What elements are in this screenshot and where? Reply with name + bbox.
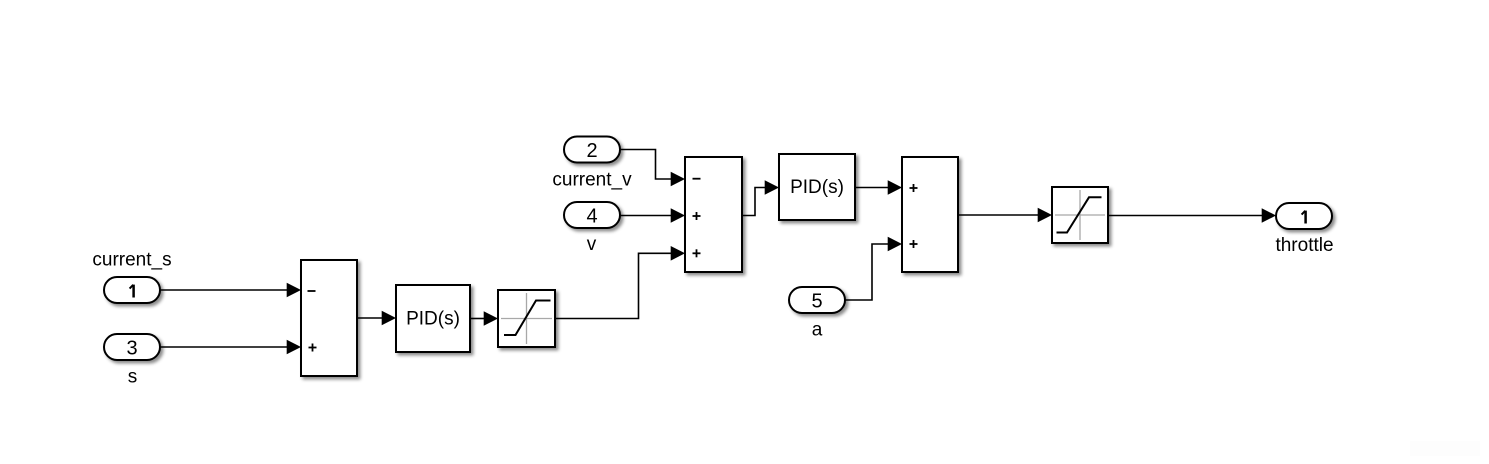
svg-text:PID(s): PID(s) <box>406 309 460 330</box>
sum block Sum2 <box>685 157 742 272</box>
outport 1 (throttle) <box>1276 203 1332 229</box>
svg-text:throttle: throttle <box>1275 235 1333 256</box>
wire sum3 to saturation2 <box>958 208 1052 223</box>
svg-text:s: s <box>128 367 138 388</box>
wire sum1 to PID1 <box>357 311 396 326</box>
wire port3 to sum1 plus input <box>160 340 301 355</box>
wire PID1 to saturation1 <box>470 311 498 326</box>
wire port4 to sum2 middle plus input <box>620 208 685 223</box>
inport 1 (current_s) <box>104 277 160 303</box>
inport 4 (v) <box>564 202 620 228</box>
wire sat1 to sum2 lower plus input <box>555 246 685 319</box>
svg-text:2: 2 <box>586 140 597 162</box>
saturation block Sat2 <box>1052 187 1108 243</box>
svg-text:a: a <box>812 320 823 341</box>
wire port1 to sum1 minus input <box>160 283 301 298</box>
svg-text:5: 5 <box>811 291 822 313</box>
sum block Sum1 <box>301 260 357 376</box>
watermark remnant <box>1410 441 1480 456</box>
svg-text:current_s: current_s <box>92 250 171 271</box>
wire sum2 to PID2 <box>742 180 779 215</box>
wire port5 to sum3 lower plus input <box>845 237 902 300</box>
sum block Sum3 <box>902 157 958 272</box>
inport 3 (s) <box>104 334 160 360</box>
PID controller PID2 <box>779 154 855 220</box>
wire PID2 to sum3 upper plus input <box>855 180 902 195</box>
svg-text:current_v: current_v <box>552 170 632 191</box>
inport 5 (a) <box>789 287 845 313</box>
saturation block Sat1 <box>498 290 555 347</box>
svg-text:v: v <box>587 234 597 255</box>
wire sat2 to outport throttle <box>1108 208 1276 223</box>
wire port2 to sum2 minus input <box>620 150 685 187</box>
inport 2 (current_v) <box>564 137 620 163</box>
svg-text:4: 4 <box>586 206 597 228</box>
PID controller PID1 <box>396 285 470 352</box>
svg-text:PID(s): PID(s) <box>790 177 844 198</box>
svg-text:3: 3 <box>126 338 137 360</box>
